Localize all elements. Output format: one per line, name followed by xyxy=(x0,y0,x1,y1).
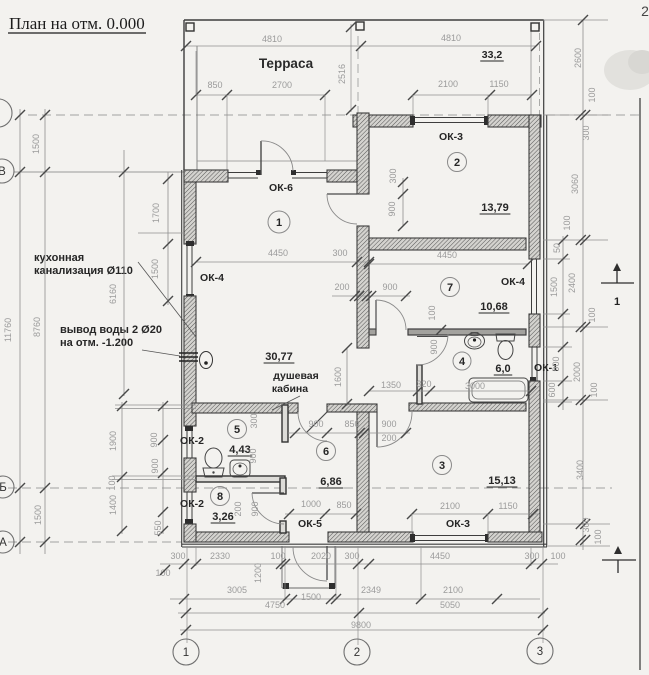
axis circle 1 xyxy=(173,639,199,665)
svg-text:2400: 2400 xyxy=(567,273,577,293)
svg-text:1500: 1500 xyxy=(549,277,559,297)
svg-text:4810: 4810 xyxy=(262,34,282,44)
room8 partition upper xyxy=(280,478,286,494)
dim room4 1350/320/3000 xyxy=(369,390,531,392)
bottom dim row1 xyxy=(160,563,558,565)
dim corridor 900/850/900/200 xyxy=(288,432,410,434)
room 7 circle xyxy=(441,278,460,297)
left dim line 900/900/550 xyxy=(162,402,164,534)
toilet room4 xyxy=(496,334,515,341)
divider rooms 4/3 xyxy=(409,403,526,411)
window OK-4 left (lines) xyxy=(186,244,188,296)
room5 top wall xyxy=(192,403,298,413)
svg-text:900: 900 xyxy=(387,201,397,216)
bottom dim row2 xyxy=(170,598,540,600)
svg-text:канализация Ø110: канализация Ø110 xyxy=(34,265,133,277)
left dim line 1900/100/1400 xyxy=(121,402,123,534)
svg-text:2100: 2100 xyxy=(440,501,460,511)
svg-text:900: 900 xyxy=(308,419,323,429)
svg-text:10,68: 10,68 xyxy=(480,301,508,313)
door room4 sill xyxy=(417,336,448,338)
building outer contour bottom xyxy=(182,543,547,545)
svg-text:2516: 2516 xyxy=(337,64,347,84)
svg-text:50: 50 xyxy=(552,243,562,253)
dim room7 4450 xyxy=(369,263,528,265)
axis line Б (horizontal, y=488) xyxy=(8,487,612,489)
svg-text:320: 320 xyxy=(416,379,431,389)
terrace door arc xyxy=(261,141,293,171)
wall A mid (rooms 1/7) xyxy=(357,226,369,348)
svg-text:4450: 4450 xyxy=(268,248,288,258)
svg-text:200: 200 xyxy=(233,501,243,516)
svg-text:1500: 1500 xyxy=(33,505,43,525)
svg-text:550: 550 xyxy=(153,520,163,535)
svg-text:300: 300 xyxy=(524,551,539,561)
svg-text:кухонная: кухонная xyxy=(34,252,84,264)
svg-text:4750: 4750 xyxy=(265,600,285,610)
terrace step line xyxy=(197,160,357,162)
svg-text:3005: 3005 xyxy=(227,585,247,595)
svg-text:900: 900 xyxy=(551,356,561,371)
top wall right segment xyxy=(488,115,541,127)
svg-text:3400: 3400 xyxy=(575,460,585,480)
svg-text:3,26: 3,26 xyxy=(212,511,233,523)
svg-text:1: 1 xyxy=(614,296,620,308)
svg-text:900: 900 xyxy=(248,448,258,463)
svg-text:1150: 1150 xyxy=(498,501,517,511)
terrace post 3 xyxy=(531,23,539,31)
porch post right xyxy=(329,583,335,589)
svg-text:ОК-6: ОК-6 xyxy=(269,182,293,194)
right dim line detail xyxy=(562,236,564,410)
svg-text:200: 200 xyxy=(334,282,349,292)
divider hall stub xyxy=(327,404,377,412)
svg-text:9800: 9800 xyxy=(351,620,371,630)
leader kanalizatsiya xyxy=(138,262,196,337)
bottom dim row3 xyxy=(178,612,545,614)
window OK-2 lower (lines) xyxy=(186,492,188,524)
svg-text:кабина: кабина xyxy=(272,383,308,395)
svg-text:100: 100 xyxy=(427,305,437,320)
terrace door jamb squares xyxy=(256,170,261,175)
right dim line main xyxy=(582,20,584,550)
svg-text:2700: 2700 xyxy=(272,80,292,90)
svg-text:на отм. -1.200: на отм. -1.200 xyxy=(60,337,133,349)
svg-text:200: 200 xyxy=(381,433,396,443)
bottom wall right xyxy=(488,532,542,542)
svg-text:13,79: 13,79 xyxy=(481,202,509,214)
svg-text:5050: 5050 xyxy=(440,600,460,610)
bottom extensions xyxy=(186,546,188,643)
door room1-room2 leaf xyxy=(327,193,357,195)
leader dushevaya xyxy=(272,396,300,410)
window OK-1 (lines) xyxy=(531,347,533,381)
svg-text:3: 3 xyxy=(537,646,543,658)
svg-text:15,13: 15,13 xyxy=(488,475,516,487)
svg-text:2000: 2000 xyxy=(572,362,582,382)
sink room4 xyxy=(465,333,485,349)
svg-text:6,86: 6,86 xyxy=(320,476,341,488)
svg-text:100: 100 xyxy=(550,551,565,561)
svg-text:1150: 1150 xyxy=(489,79,508,89)
svg-text:3000: 3000 xyxy=(465,381,485,391)
door room3 arc xyxy=(377,412,412,447)
svg-text:1200: 1200 xyxy=(253,563,263,583)
svg-text:300: 300 xyxy=(332,248,347,258)
svg-text:2: 2 xyxy=(454,157,460,169)
section arrow bottom right xyxy=(602,559,636,561)
room 8 circle xyxy=(211,487,230,506)
svg-text:900: 900 xyxy=(150,458,160,473)
bottom wall mid xyxy=(328,532,413,542)
svg-text:2349: 2349 xyxy=(361,585,381,595)
svg-text:900: 900 xyxy=(149,432,159,447)
axis line 2 vertical in terrace xyxy=(357,22,359,114)
svg-text:5: 5 xyxy=(234,424,240,436)
building outer contour right xyxy=(543,20,545,547)
svg-text:ОК-4: ОК-4 xyxy=(501,276,525,288)
door room8 arc xyxy=(252,493,284,524)
wall A upper (rooms 1/2) xyxy=(357,113,369,194)
window OK-6 (lines) xyxy=(228,172,258,174)
right extension lines xyxy=(543,19,608,21)
left wall seg1 xyxy=(184,170,196,244)
terrace post 1 xyxy=(186,23,194,31)
axis circle Б xyxy=(0,476,14,498)
svg-text:900: 900 xyxy=(429,339,439,354)
divider rooms 5/8 xyxy=(196,476,285,482)
left dim line outer 11760 xyxy=(19,109,21,554)
terrace door leaf xyxy=(260,141,262,175)
svg-text:2: 2 xyxy=(354,647,360,659)
room 3 circle xyxy=(433,456,452,475)
water outlet marks xyxy=(179,352,198,354)
dim 1600 vertical xyxy=(346,348,348,406)
right wall lower xyxy=(529,381,540,542)
svg-text:900: 900 xyxy=(381,419,396,429)
svg-text:100: 100 xyxy=(593,529,603,544)
svg-text:100: 100 xyxy=(589,382,599,397)
svg-text:4450: 4450 xyxy=(430,551,450,561)
svg-text:100: 100 xyxy=(562,215,572,230)
svg-text:3: 3 xyxy=(439,460,445,472)
svg-text:1: 1 xyxy=(276,217,282,229)
bottom dim row4 xyxy=(180,629,545,631)
porch post left xyxy=(283,583,289,589)
svg-text:100: 100 xyxy=(587,307,597,322)
svg-text:1400: 1400 xyxy=(108,495,118,515)
porch side lines xyxy=(281,546,283,588)
svg-text:2: 2 xyxy=(641,3,649,19)
svg-text:300: 300 xyxy=(581,517,591,532)
window OK-3 top (lines) xyxy=(413,117,488,119)
window OK-2 upper (lines) xyxy=(186,426,188,458)
shower partition xyxy=(282,405,288,442)
left wall seg4 xyxy=(184,524,196,542)
divider rooms 2/7 xyxy=(369,238,526,250)
svg-text:В: В xyxy=(0,166,6,178)
svg-text:Терраса: Терраса xyxy=(259,56,314,71)
svg-text:1350: 1350 xyxy=(381,380,401,390)
svg-text:7: 7 xyxy=(447,282,453,294)
svg-text:душевая: душевая xyxy=(273,370,319,382)
left connector y476 xyxy=(112,475,196,477)
dim room1/7 200+900 xyxy=(332,295,410,297)
right wall mid xyxy=(529,314,540,347)
svg-text:4810: 4810 xyxy=(441,33,461,43)
svg-text:3060: 3060 xyxy=(570,174,580,194)
divider rooms 7/4 left stub xyxy=(369,329,376,335)
dimension 4810+4810 line xyxy=(186,45,536,47)
wall A lower (rooms 6/3) xyxy=(357,404,369,532)
axis line А (horizontal, y=542) xyxy=(8,541,182,543)
svg-text:850: 850 xyxy=(336,500,351,510)
leader vyvod xyxy=(142,350,180,356)
section arrow right xyxy=(601,282,634,284)
svg-text:300: 300 xyxy=(249,413,259,428)
axis circle А xyxy=(0,531,14,553)
svg-text:2100: 2100 xyxy=(443,585,463,595)
svg-text:ОК-2: ОК-2 xyxy=(180,435,204,447)
svg-text:2100: 2100 xyxy=(438,79,458,89)
right wall upper xyxy=(529,115,540,259)
svg-text:850: 850 xyxy=(207,80,222,90)
svg-text:4450: 4450 xyxy=(437,250,457,260)
svg-text:ОК-4: ОК-4 xyxy=(200,272,224,284)
svg-text:1000: 1000 xyxy=(301,499,321,509)
svg-text:ОК-2: ОК-2 xyxy=(180,498,204,510)
svg-text:1500: 1500 xyxy=(150,259,160,279)
terrace outline xyxy=(184,19,544,21)
svg-text:300: 300 xyxy=(581,125,591,140)
axis circle Г partial xyxy=(0,99,12,127)
door room4 arc xyxy=(417,334,448,365)
door room3 leaf xyxy=(376,412,378,447)
svg-text:850: 850 xyxy=(344,419,359,429)
axis line 3 vertical xyxy=(539,22,541,115)
svg-text:План на отм. 0.000: План на отм. 0.000 xyxy=(9,14,145,33)
svg-text:900: 900 xyxy=(250,501,260,516)
dimension 2516 vertical xyxy=(350,24,352,112)
svg-text:33,2: 33,2 xyxy=(482,49,503,61)
svg-text:1500: 1500 xyxy=(301,592,321,602)
room 1 circle xyxy=(268,211,290,233)
room1 top wall right piece xyxy=(327,170,357,182)
scan shadow top right xyxy=(604,50,649,90)
door room8 leaf xyxy=(252,492,284,494)
axis line В (horizontal, y=172) xyxy=(14,171,184,173)
left wall seg3 xyxy=(184,458,196,492)
svg-text:300: 300 xyxy=(170,551,185,561)
svg-text:вывод воды 2 Ø20: вывод воды 2 Ø20 xyxy=(60,324,162,336)
svg-text:300: 300 xyxy=(388,168,398,183)
svg-text:100: 100 xyxy=(587,87,597,102)
dimension 850/2700 xyxy=(196,94,325,96)
svg-text:ОК-5: ОК-5 xyxy=(298,518,322,530)
svg-text:300: 300 xyxy=(344,551,359,561)
shower door leaf xyxy=(306,412,327,433)
svg-text:А: А xyxy=(0,537,7,549)
svg-text:30,77: 30,77 xyxy=(265,351,293,363)
page border right xyxy=(639,98,641,670)
left wall seg2 xyxy=(184,296,196,426)
left dim lines 1700/1500 xyxy=(167,172,169,305)
room1 top wall left piece xyxy=(184,170,228,182)
door room1-room2 arc xyxy=(327,194,357,224)
svg-text:8760: 8760 xyxy=(32,317,42,337)
room8 partition lower xyxy=(280,521,286,533)
dim room1 4450 xyxy=(196,261,369,263)
window OK-4 right (lines) xyxy=(531,259,533,314)
shower door arc xyxy=(298,412,327,441)
building outer contour left xyxy=(181,170,183,547)
svg-text:1: 1 xyxy=(183,647,189,659)
dim hall 1000/850 xyxy=(285,513,358,515)
entrance door leaf xyxy=(326,546,328,580)
dimension 2100/1150 top xyxy=(413,94,532,96)
svg-text:100: 100 xyxy=(270,551,285,561)
drain symbol xyxy=(200,352,213,369)
dim room2 300/900 vertical xyxy=(402,178,404,226)
axis circle В xyxy=(0,159,14,183)
terrace post 2 xyxy=(356,22,364,30)
room 2 circle xyxy=(448,153,467,172)
door room7 arc xyxy=(376,300,406,330)
svg-text:1700: 1700 xyxy=(151,203,161,223)
svg-text:1900: 1900 xyxy=(108,431,118,451)
top wall left segment xyxy=(353,115,413,127)
svg-text:ОК-3: ОК-3 xyxy=(439,131,463,143)
door room7 leaf xyxy=(375,300,377,330)
axis line Г (horizontal, y=115) xyxy=(28,114,640,116)
dim room3 2100/1150 xyxy=(412,513,539,515)
svg-text:100: 100 xyxy=(155,568,170,578)
svg-text:4: 4 xyxy=(459,356,466,368)
svg-text:6: 6 xyxy=(323,446,329,458)
svg-text:Б: Б xyxy=(0,482,7,494)
room 6 circle xyxy=(317,442,336,461)
svg-text:6160: 6160 xyxy=(108,284,118,304)
svg-text:1500: 1500 xyxy=(31,134,41,154)
svg-text:600: 600 xyxy=(547,382,557,397)
left extension y233 xyxy=(138,232,184,234)
terrace inner edge left xyxy=(196,46,198,170)
left connector y405 xyxy=(115,404,196,406)
room 4 circle xyxy=(453,352,471,370)
window OK-3 bottom (lines) xyxy=(413,535,488,537)
svg-text:6,0: 6,0 xyxy=(495,363,510,375)
toilet room5 xyxy=(205,448,222,468)
svg-text:2020: 2020 xyxy=(311,551,331,561)
axis circle 3 xyxy=(527,638,553,664)
entrance door arc xyxy=(293,547,327,581)
right window extension lines xyxy=(543,258,570,260)
bottom wall left xyxy=(184,532,289,542)
divider rooms 7/4 right xyxy=(408,329,526,335)
svg-text:8: 8 xyxy=(217,491,223,503)
svg-text:ОК-3: ОК-3 xyxy=(446,518,470,530)
room 5 circle xyxy=(228,420,247,439)
svg-text:2330: 2330 xyxy=(210,551,230,561)
room4 partition xyxy=(417,365,422,404)
svg-text:900: 900 xyxy=(382,282,397,292)
sink room5 xyxy=(230,460,250,477)
svg-text:100: 100 xyxy=(107,475,117,490)
svg-text:11760: 11760 xyxy=(3,318,13,342)
left dim line 6160 xyxy=(123,150,125,396)
svg-text:2600: 2600 xyxy=(573,48,583,68)
bathtub room4 xyxy=(469,378,528,402)
axis circle 2 xyxy=(344,639,370,665)
left dim line 1500/8760/1500 xyxy=(44,109,46,554)
svg-text:1600: 1600 xyxy=(333,367,343,387)
